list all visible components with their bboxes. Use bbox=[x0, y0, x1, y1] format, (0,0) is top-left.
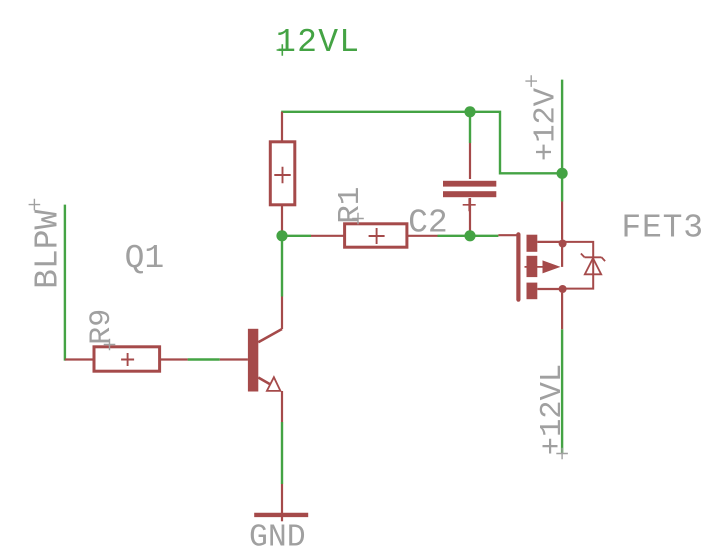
wire C2 to gate bbox=[470, 235, 498, 237]
wire collector net bbox=[281, 236, 283, 297]
origin cross BLPW bbox=[29, 199, 41, 211]
body diode (zener) of FET3 bbox=[581, 254, 605, 275]
wire R1 left bbox=[282, 235, 311, 237]
wire +12VL net bbox=[561, 329, 563, 453]
resistor R9 bbox=[65, 347, 188, 371]
junction node (top rail / cap) bbox=[464, 106, 475, 117]
wire top rail to +12V rail bbox=[281, 112, 562, 174]
junction node (+12V rail) bbox=[557, 168, 568, 179]
origin cross R1 bbox=[352, 213, 364, 225]
svg-text:+12V: +12V bbox=[530, 87, 564, 161]
capacitor C2 bbox=[443, 143, 496, 236]
junction node (collector / R1) bbox=[276, 230, 287, 241]
transistor Q1 (NPN) bbox=[220, 297, 282, 423]
origin cross R9 bbox=[104, 339, 116, 351]
wire R1 right to C2 bbox=[438, 235, 471, 237]
svg-text:GND: GND bbox=[249, 521, 306, 556]
resistor R1 bbox=[311, 224, 438, 247]
wire BLPW net bbox=[64, 205, 66, 361]
resistor (vertical, no visible refdes) bbox=[270, 112, 295, 236]
origin cross +12V bbox=[525, 75, 537, 87]
svg-text:BLPW: BLPW bbox=[29, 209, 66, 288]
ground symbol GND bbox=[254, 484, 308, 521]
wire emitter to GND bbox=[281, 422, 283, 484]
wire cap top bbox=[469, 112, 471, 143]
wire base net bbox=[188, 358, 220, 360]
svg-text:FET3: FET3 bbox=[621, 210, 703, 247]
wire +12V vertical bbox=[561, 80, 563, 174]
svg-text:12VL: 12VL bbox=[276, 24, 360, 61]
origin cross +12VL bbox=[556, 448, 568, 460]
wire +12V rail to drain bbox=[561, 173, 563, 201]
svg-text:R9: R9 bbox=[85, 309, 119, 345]
supply symbol 12VL (net name, green) bbox=[276, 24, 360, 61]
svg-text:+12VL: +12VL bbox=[536, 364, 570, 456]
junction node (C2 / gate) bbox=[464, 230, 475, 241]
svg-text:Q1: Q1 bbox=[125, 240, 165, 277]
MOSFET FET3 bbox=[498, 202, 593, 330]
svg-text:C2: C2 bbox=[408, 205, 448, 242]
